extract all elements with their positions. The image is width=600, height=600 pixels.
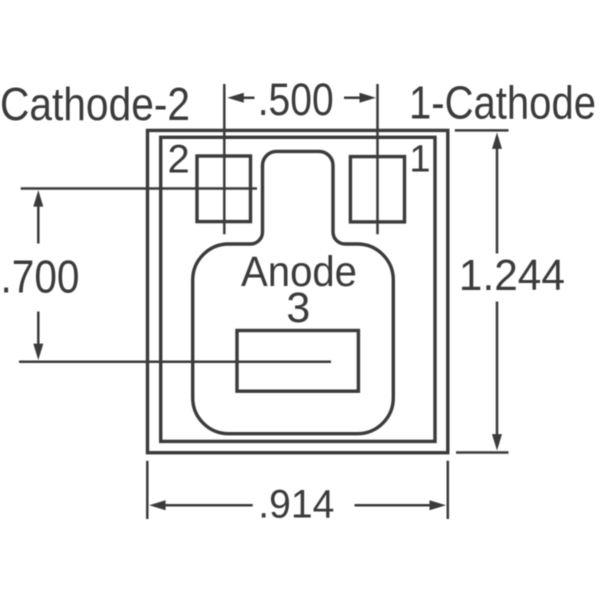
svg-text:2: 2 [168,138,190,182]
anode thermal rectangle [237,331,358,392]
dim .700 top leader line [21,187,257,190]
dim 1.244 top leader line [455,129,509,132]
svg-text:Cathode-2: Cathode-2 [0,78,190,130]
svg-text:.914: .914 [258,483,334,527]
dim .500 right arrow [344,93,376,103]
dim .914 right arrow [355,500,447,510]
dim .914 right extension line [447,461,450,519]
package outline outer rectangle [148,130,448,452]
svg-text:3: 3 [286,284,310,332]
dim .700 down arrow [33,312,43,361]
anode pad keyhole shape [193,151,394,433]
dim 1.244 down arrow and line [492,302,502,451]
dim 1.244 up arrow and line [492,132,502,253]
svg-text:.700: .700 [1,251,80,303]
svg-text:1.244: 1.244 [459,251,565,300]
package outline inner rectangle [161,137,435,441]
svg-text:1: 1 [409,138,430,180]
cathode pad 1 rectangle [350,157,404,222]
dim .500 left arrow [227,93,254,103]
dim .500 left extension line [223,84,226,234]
dim .500 right extension line [376,84,379,234]
dim .914 left arrow [149,500,253,510]
cathode pad 2 rectangle [197,156,251,222]
dim .700 bottom leader line [19,360,331,363]
dim .914 left extension line [146,461,149,519]
svg-text:1-Cathode: 1-Cathode [409,77,596,129]
dim .700 up arrow [33,190,43,243]
svg-text:.500: .500 [258,74,334,125]
dim 1.244 bottom leader line [456,451,509,454]
